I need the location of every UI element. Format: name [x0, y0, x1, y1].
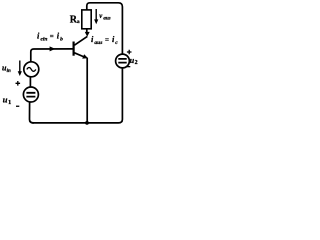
DC source U1 circle — [23, 87, 38, 102]
transistor Q1 base bar — [72, 42, 74, 56]
voltage arrow u_in at left — [19, 61, 21, 73]
resistor R_a body — [82, 10, 91, 29]
wire resistor bottom to collector — [86, 29, 88, 33]
junction node emitter joins bottom rail — [85, 121, 89, 125]
svg-text:1: 1 — [8, 99, 11, 106]
wire emitter vertical down to bottom rail — [86, 59, 88, 123]
voltage arrow v_aus beside resistor — [95, 9, 97, 21]
svg-text:u: u — [3, 95, 8, 105]
svg-text:ein: ein — [40, 36, 47, 42]
AC source sine wave — [27, 68, 36, 72]
wire top rail from resistor to right side — [87, 3, 123, 54]
transistor Q1 collector lead — [74, 36, 87, 45]
minus sign of U1 — [16, 106, 19, 107]
svg-text:2: 2 — [135, 60, 138, 66]
current arrow i_ein on base wire — [50, 46, 56, 51]
svg-text:=: = — [105, 36, 109, 44]
transistor Q1 emitter lead — [74, 53, 84, 57]
svg-text:in: in — [7, 69, 11, 74]
DC source U2 bars — [118, 59, 126, 63]
minus sign of U2 — [127, 66, 130, 67]
wire bottom left corner up to U1 — [30, 102, 34, 123]
plus sign of U2 — [127, 50, 132, 55]
plus sign of U1 — [16, 81, 21, 86]
svg-text:aus: aus — [103, 17, 110, 22]
AC source circle — [24, 62, 39, 77]
label i_ein = i_b — [37, 30, 63, 42]
svg-text:aus: aus — [94, 40, 102, 46]
transistor Q1 emitter arrowhead — [82, 54, 88, 58]
wire between U1 and AC source — [29, 77, 31, 87]
wire right side below U2 down to bottom rail — [33, 68, 122, 123]
svg-text:a: a — [77, 19, 80, 25]
DC source U1 bars — [26, 93, 35, 97]
current arrow i_aus on collector wire — [85, 32, 90, 37]
svg-text:=: = — [50, 32, 54, 40]
wire AC source top to transistor base — [31, 49, 72, 62]
DC source U2 circle — [116, 54, 130, 68]
label i_aus = i_c — [91, 34, 118, 46]
svg-text:b: b — [60, 36, 63, 42]
